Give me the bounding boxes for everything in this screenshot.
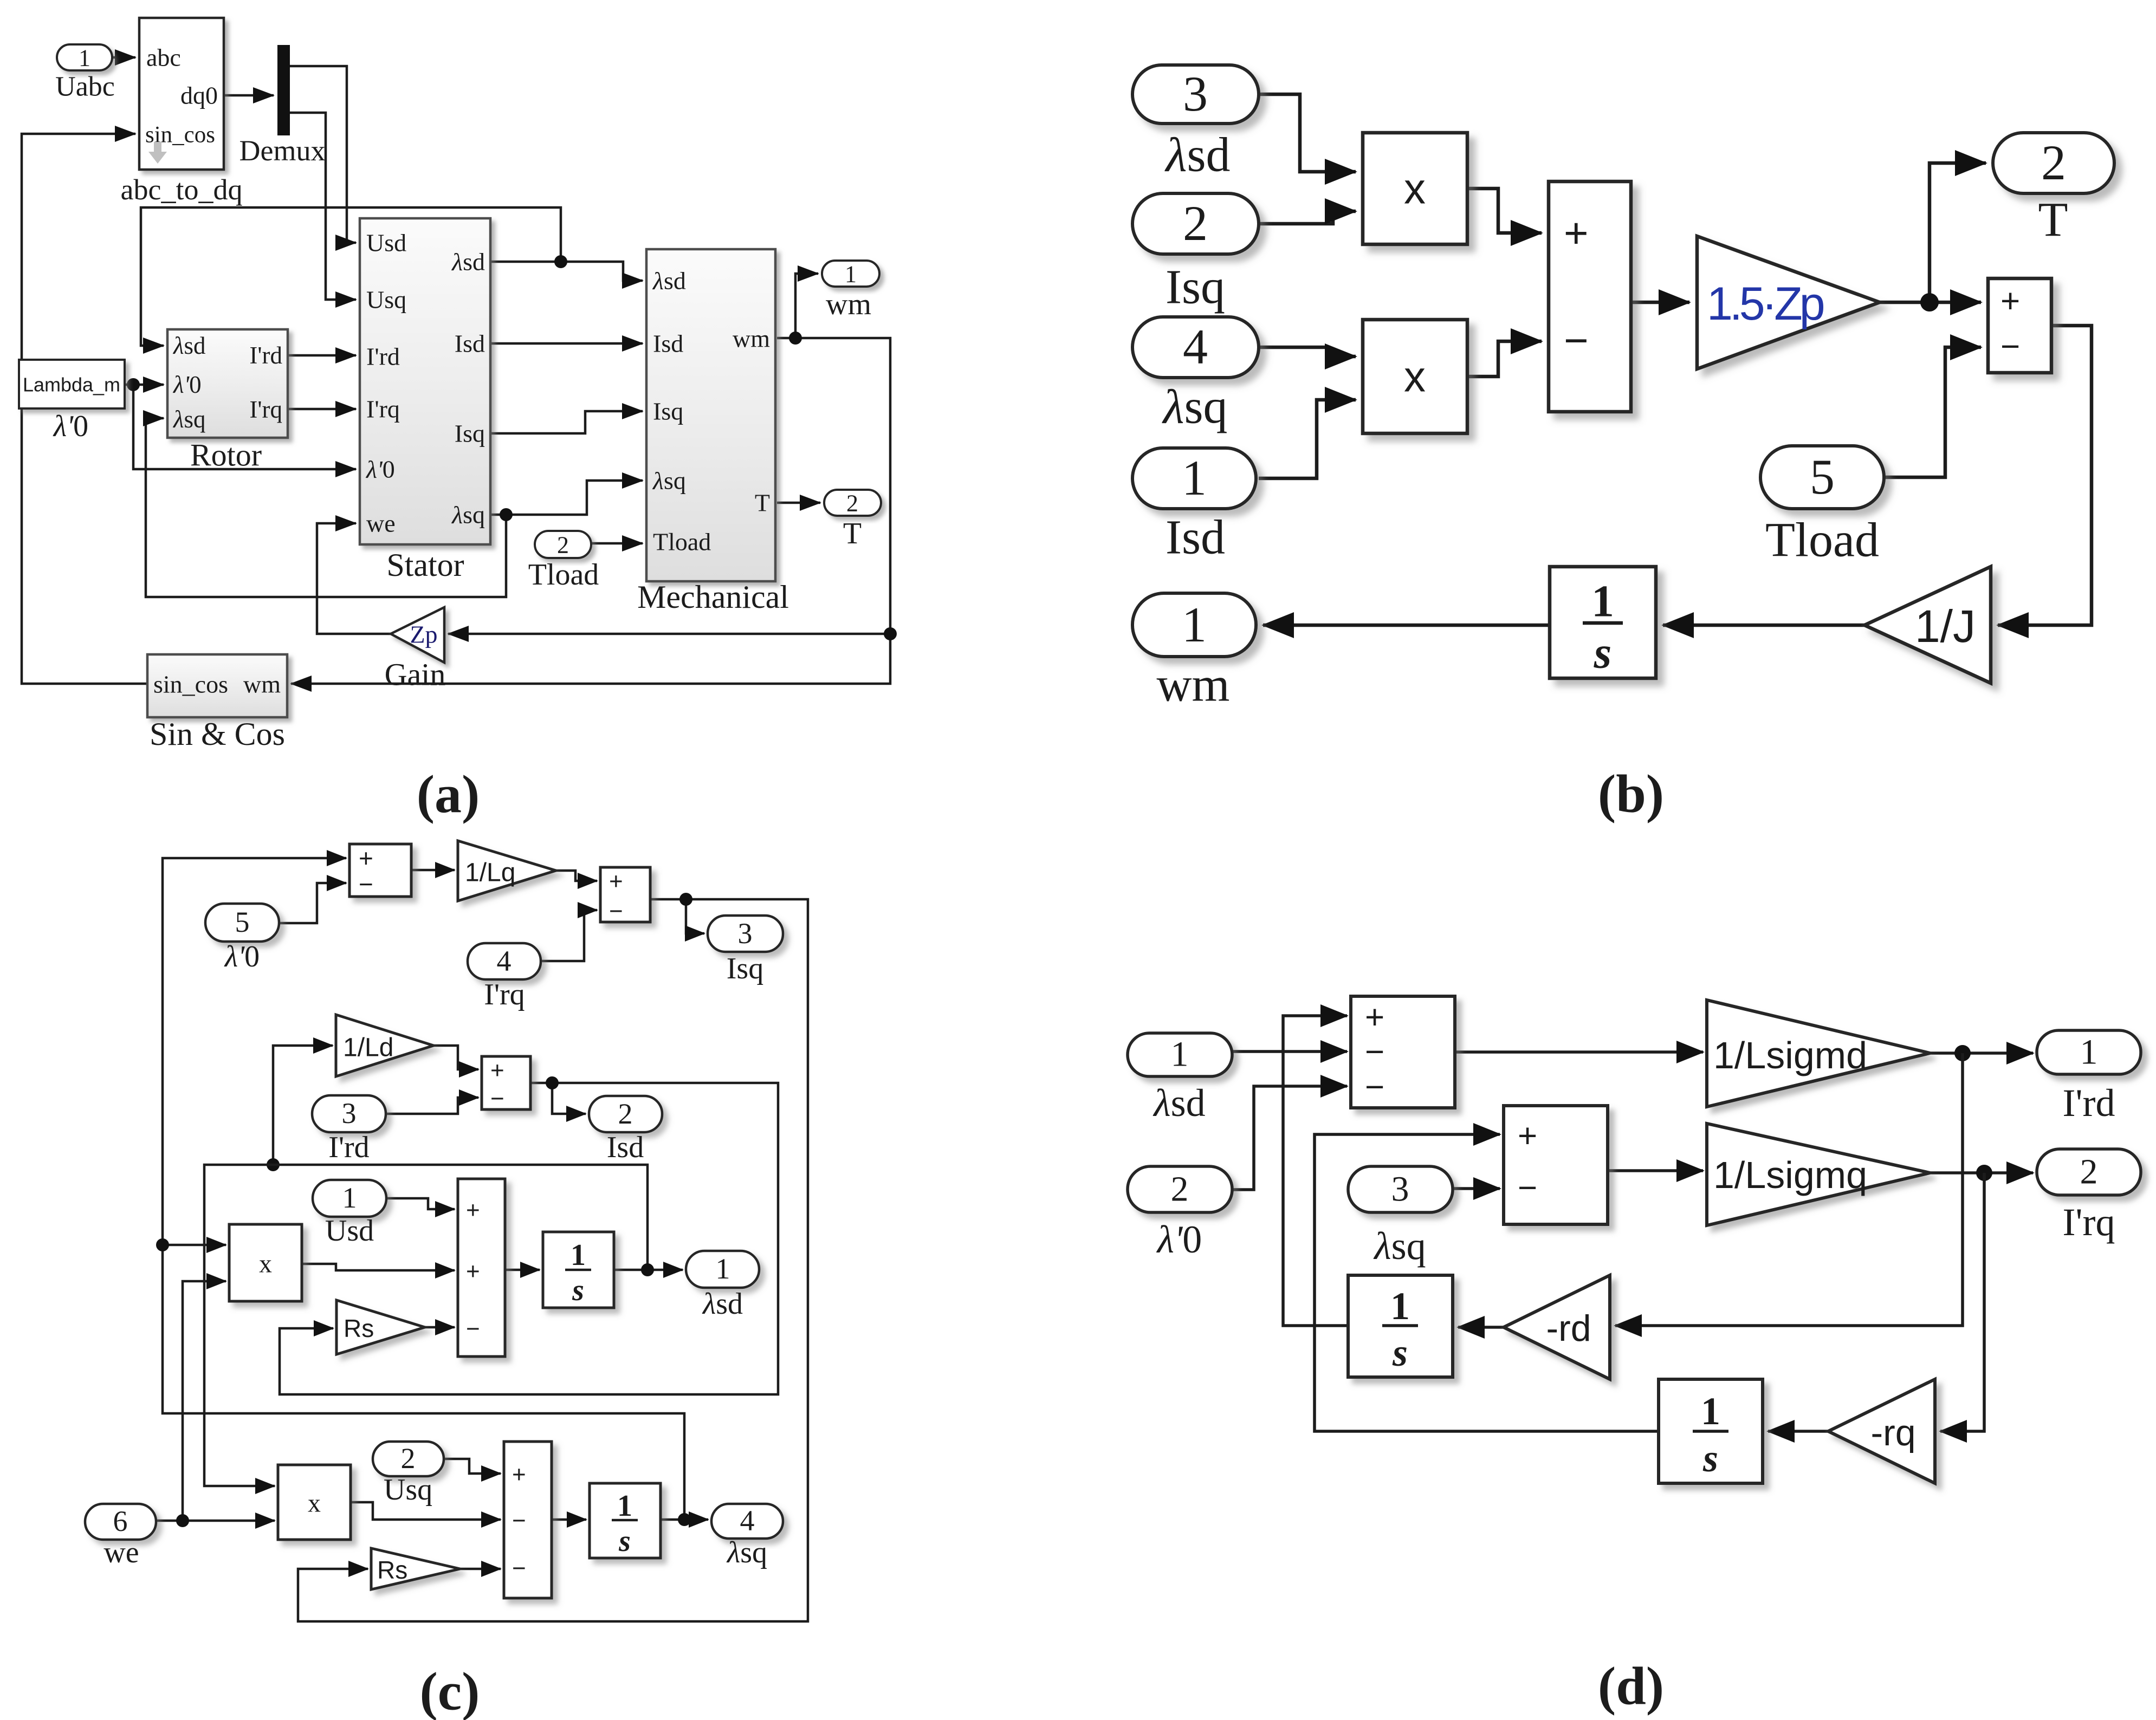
wire junction to sum2 plus bbox=[1930, 301, 1981, 304]
svg-text:λsq: λsq bbox=[1373, 1224, 1426, 1268]
svg-text:x: x bbox=[1404, 353, 1426, 401]
wire port 2 lambda'0 to sum1 bottom minus bbox=[1232, 1086, 1347, 1190]
wire port 4 to product2 in1 bbox=[1259, 347, 1356, 356]
wire I'rq feedback down to gain -rq bbox=[1940, 1173, 1984, 1431]
wire port 3 to product1 in1 bbox=[1259, 94, 1356, 172]
port 4 oval bbox=[1132, 317, 1259, 378]
svg-text:x: x bbox=[308, 1489, 321, 1518]
svg-text:(d): (d) bbox=[1598, 1656, 1664, 1716]
svg-text:λsq: λsq bbox=[1161, 380, 1227, 434]
sum block 1 bbox=[1549, 181, 1631, 412]
block Stator subsystem bbox=[360, 218, 490, 544]
svg-text:+: + bbox=[490, 1057, 504, 1084]
svg-text:1: 1 bbox=[571, 1238, 586, 1272]
wire Mechanical wm output bbox=[777, 337, 795, 340]
svg-text:dq0: dq0 bbox=[180, 82, 218, 109]
svg-text:wm: wm bbox=[1157, 658, 1230, 712]
wire to port lambda_sq bbox=[684, 1518, 708, 1521]
Demux bar bbox=[277, 45, 290, 135]
svg-text:λsd: λsd bbox=[702, 1287, 743, 1321]
svg-text:we: we bbox=[103, 1536, 139, 1569]
wire Rotor I'rq to Stator bbox=[288, 408, 356, 411]
svg-text:-rd: -rd bbox=[1546, 1308, 1591, 1349]
wire sum2 output bbox=[650, 898, 686, 901]
wire port 4 to sum2 minus bbox=[541, 910, 597, 961]
svg-text:λ'0: λ'0 bbox=[365, 456, 395, 483]
port 3 oval Isq out bbox=[708, 916, 783, 952]
gain -rq triangle bbox=[1828, 1379, 1935, 1483]
wire sin_cos feedback from Sin&Cos output to abc_to_dq sin_cos input bbox=[22, 134, 147, 684]
svg-text:(b): (b) bbox=[1598, 764, 1664, 824]
svg-text:Lambda_m: Lambda_m bbox=[23, 374, 120, 396]
wire integrator1 feedback to sum1 plus bbox=[1283, 1016, 1348, 1326]
svg-text:+: + bbox=[1365, 999, 1384, 1036]
svg-text:2: 2 bbox=[2080, 1152, 2098, 1192]
wire gain 1/J to integrator bbox=[1663, 624, 1864, 627]
port T oval 2 bbox=[824, 490, 881, 516]
wire port 1 to product2 in2 bbox=[1259, 400, 1356, 478]
svg-text:1: 1 bbox=[716, 1252, 730, 1285]
svg-text:λsq: λsq bbox=[451, 501, 485, 529]
integrator 1/s bottom bbox=[590, 1483, 661, 1558]
svg-text:2: 2 bbox=[557, 532, 569, 559]
svg-text:−: − bbox=[466, 1316, 480, 1342]
port wm oval 1 bbox=[822, 261, 879, 287]
svg-text:1: 1 bbox=[845, 261, 857, 288]
wire to port lambda_sd bbox=[648, 1269, 683, 1271]
port 3 oval bbox=[1132, 65, 1259, 124]
svg-text:λ'0: λ'0 bbox=[224, 940, 260, 973]
svg-text:1: 1 bbox=[1182, 597, 1207, 652]
svg-text:−: − bbox=[512, 1555, 526, 1582]
integrator 1/s top bbox=[543, 1232, 614, 1308]
gain 1/J triangle bbox=[1864, 567, 1991, 683]
svg-text:2: 2 bbox=[1183, 196, 1208, 251]
svg-text:1/Lsigmd: 1/Lsigmd bbox=[1713, 1034, 1867, 1076]
svg-text:1: 1 bbox=[617, 1489, 632, 1523]
wire port 2 to product1 in2 bbox=[1259, 211, 1356, 224]
gain 1/Lq triangle bbox=[458, 841, 556, 901]
svg-text:sin_cos: sin_cos bbox=[153, 671, 228, 698]
wire I'rd feedback down to gain -rd bbox=[1615, 1053, 1963, 1326]
wire gain -rq to integrator2 bbox=[1768, 1430, 1828, 1433]
gain Rs2 triangle bbox=[371, 1548, 460, 1589]
svg-text:wm: wm bbox=[733, 325, 770, 353]
port 2 oval Usq bbox=[373, 1442, 444, 1476]
svg-text:λ'0: λ'0 bbox=[53, 410, 88, 443]
svg-text:wm: wm bbox=[826, 288, 871, 321]
svg-text:s: s bbox=[1392, 1331, 1408, 1374]
svg-text:s: s bbox=[1702, 1437, 1718, 1480]
wire Lambda_m to Rotor lambda'0 bbox=[125, 384, 164, 386]
svg-text:−: − bbox=[1518, 1170, 1537, 1207]
svg-text:λsd: λsd bbox=[1164, 128, 1230, 182]
wire Demux out2 to Stator Usq bbox=[290, 113, 356, 300]
gain Rs1 triangle bbox=[336, 1300, 425, 1354]
svg-text:1: 1 bbox=[2080, 1033, 2098, 1072]
wire sum3 output bbox=[530, 1082, 552, 1085]
svg-text:1/Ld: 1/Ld bbox=[343, 1034, 393, 1062]
svg-text:Uabc: Uabc bbox=[55, 72, 115, 102]
node lambda'0 junction bbox=[127, 378, 140, 391]
wire gain -rd to integrator1 bbox=[1458, 1326, 1504, 1329]
svg-text:2: 2 bbox=[401, 1442, 416, 1475]
node 1/Ld branch junction bbox=[267, 1158, 280, 1171]
svg-text:+: + bbox=[466, 1197, 480, 1224]
wire sum1 to gain 1/Lq bbox=[411, 869, 455, 872]
svg-text:2: 2 bbox=[618, 1098, 633, 1130]
svg-text:Isd: Isd bbox=[653, 330, 683, 358]
wire gain 1/Ld to sum3 plus bbox=[433, 1046, 478, 1069]
svg-text:Mechanical: Mechanical bbox=[637, 579, 789, 615]
svg-text:1: 1 bbox=[1171, 1035, 1189, 1074]
svg-text:+: + bbox=[359, 844, 373, 872]
sum block 3 bbox=[482, 1056, 530, 1109]
svg-text:wm: wm bbox=[243, 671, 281, 698]
node wm junction bbox=[789, 332, 802, 345]
wire Rotor I'rd to Stator bbox=[288, 354, 356, 357]
product block 2 bbox=[278, 1465, 351, 1540]
svg-text:1: 1 bbox=[1182, 450, 1207, 505]
svg-text:I'rq: I'rq bbox=[2063, 1200, 2115, 1244]
wire integrator to port wm bbox=[1263, 624, 1550, 627]
svg-text:Isq: Isq bbox=[455, 420, 485, 447]
svg-text:T: T bbox=[755, 489, 770, 517]
svg-text:+: + bbox=[466, 1258, 480, 1285]
svg-text:3: 3 bbox=[342, 1097, 357, 1130]
wire sum4 to integrator1 bbox=[505, 1269, 540, 1271]
block abc_to_dq bbox=[139, 18, 224, 170]
svg-text:Stator: Stator bbox=[386, 547, 464, 583]
wire wm feedback to Sin&Cos bbox=[291, 338, 890, 684]
node lambda_sd junction bbox=[554, 255, 567, 268]
wire lambda_sd riser to gain 1/Ld bbox=[273, 1046, 333, 1165]
node we junction bbox=[176, 1514, 189, 1527]
svg-text:I'rd: I'rd bbox=[2063, 1081, 2115, 1125]
gain 1.5*Zp triangle bbox=[1697, 236, 1880, 369]
wire lambda_sd feedback loop to product1 in1 path bbox=[204, 1165, 648, 1486]
wire port 1 lambda_sd to sum1 middle minus bbox=[1232, 1050, 1347, 1053]
wire port 3 lambda_sq to sum2 minus bbox=[1453, 1187, 1500, 1190]
wire wm to Gain input bbox=[448, 633, 890, 635]
svg-text:2: 2 bbox=[846, 490, 858, 517]
node lambda_sq output junction bbox=[678, 1513, 691, 1526]
wire Stator lambda_sq output stub bbox=[490, 514, 506, 516]
svg-text:I'rd: I'rd bbox=[366, 343, 400, 371]
wire sum5 to integrator2 bbox=[552, 1518, 586, 1521]
svg-text:λsq: λsq bbox=[652, 467, 686, 495]
wire port 2 Usq to sum5 plus bbox=[444, 1459, 501, 1474]
wire integrator2 feedback to sum2 plus bbox=[1315, 1134, 1659, 1431]
wire lambda_sq feedback to Rotor bbox=[146, 418, 506, 597]
port 2 oval Isd out bbox=[589, 1096, 662, 1132]
wire Tload port to Mechanical bbox=[591, 542, 643, 545]
product block 1 bbox=[1363, 133, 1467, 244]
svg-text:s: s bbox=[618, 1524, 631, 1558]
svg-text:1/J: 1/J bbox=[1915, 601, 1976, 652]
svg-text:3: 3 bbox=[738, 917, 753, 950]
svg-text:abc: abc bbox=[146, 44, 181, 72]
wire Stator Isd to Mechanical bbox=[490, 342, 643, 345]
svg-text:abc_to_dq: abc_to_dq bbox=[121, 173, 243, 206]
svg-text:Demux: Demux bbox=[239, 134, 326, 167]
wire junction to port T bbox=[1930, 163, 1986, 302]
wire gain Rs1 to sum4 minus bbox=[425, 1326, 455, 1329]
svg-text:Usq: Usq bbox=[366, 286, 406, 314]
port 4 oval lambda_sq out bbox=[711, 1504, 783, 1539]
block Lambda_m constant bbox=[19, 360, 125, 408]
node I'rq junction bbox=[1976, 1165, 1992, 1181]
svg-text:I'rd: I'rd bbox=[249, 342, 282, 369]
wire port 5 to sum1 minus bbox=[279, 883, 346, 923]
sum block 2 bbox=[1988, 278, 2051, 373]
svg-text:4: 4 bbox=[1183, 319, 1208, 374]
svg-text:Rs: Rs bbox=[377, 1556, 407, 1584]
wire Isd feedback loop to gain Rs1 bbox=[280, 1083, 778, 1394]
product block 2 bbox=[1363, 320, 1467, 433]
svg-text:Rotor: Rotor bbox=[190, 438, 262, 473]
wire gain 1/Lq to sum2 plus bbox=[556, 871, 597, 881]
wire product2 to sum minus bbox=[1467, 341, 1542, 377]
wire lambda_sq branch to product1 in1 bbox=[163, 1244, 226, 1247]
svg-text:s: s bbox=[572, 1274, 584, 1307]
sum block 4 tall bbox=[458, 1179, 505, 1356]
wire sum to gain 1.5Zp bbox=[1631, 301, 1689, 304]
port 6 oval we bbox=[85, 1504, 156, 1540]
svg-text:−: − bbox=[512, 1508, 526, 1534]
svg-text:1: 1 bbox=[1591, 576, 1614, 627]
wire product1 to sum plus bbox=[1467, 189, 1542, 233]
svg-text:−: − bbox=[1564, 316, 1589, 364]
svg-text:+: + bbox=[609, 868, 623, 895]
svg-text:Isq: Isq bbox=[653, 398, 683, 425]
svg-text:-rq: -rq bbox=[1870, 1412, 1915, 1453]
sum block 5 tall bbox=[504, 1442, 552, 1598]
port 3 oval I'rd in bbox=[312, 1095, 386, 1132]
svg-text:3: 3 bbox=[1391, 1170, 1409, 1209]
wire Mechanical T to port 2 bbox=[777, 502, 820, 504]
port 2 oval bbox=[1132, 193, 1259, 254]
svg-text:4: 4 bbox=[497, 945, 512, 977]
svg-text:1/Lq: 1/Lq bbox=[465, 859, 515, 887]
svg-text:λsd: λsd bbox=[172, 332, 206, 359]
svg-text:+: + bbox=[1518, 1118, 1537, 1155]
gain Zp triangle bbox=[391, 607, 444, 663]
svg-text:4: 4 bbox=[740, 1504, 755, 1537]
svg-text:5: 5 bbox=[1810, 449, 1835, 504]
wire lambda_sd feedback to Rotor bbox=[141, 207, 561, 346]
svg-text:Gain: Gain bbox=[385, 657, 446, 692]
port 2 oval I'rq out bbox=[2037, 1149, 2141, 1195]
wire sum1 to gain 1/Lsigmd bbox=[1455, 1050, 1703, 1054]
svg-text:Isd: Isd bbox=[607, 1131, 644, 1164]
svg-text:−: − bbox=[2000, 328, 2020, 366]
port 4 oval I'rq bbox=[468, 943, 541, 979]
wire to port Isd bbox=[552, 1083, 586, 1114]
svg-text:T: T bbox=[843, 517, 862, 550]
wire gain 1/Lsigmd to port I'rd bbox=[1930, 1052, 2033, 1055]
svg-text:λsd: λsd bbox=[451, 248, 485, 276]
svg-text:λsq: λsq bbox=[172, 406, 206, 433]
integrator 1/s first bbox=[1348, 1275, 1453, 1377]
wire dq0 to Demux bbox=[224, 94, 274, 97]
svg-text:1: 1 bbox=[1701, 1390, 1720, 1433]
wire integrator2 output bbox=[661, 1518, 684, 1521]
port wm oval 1 bbox=[1132, 593, 1256, 657]
gain -rd triangle bbox=[1504, 1275, 1610, 1379]
svg-text:Tload: Tload bbox=[528, 558, 599, 592]
svg-text:−: − bbox=[490, 1086, 504, 1112]
wire lambda_sq feedback loop to sum1 plus bbox=[163, 858, 684, 1520]
gain 1/Lsigmd triangle bbox=[1707, 1000, 1930, 1107]
port 1 oval lambda_sd bbox=[1128, 1033, 1232, 1076]
svg-text:s: s bbox=[1594, 628, 1612, 678]
sum block 1 three inputs bbox=[1351, 996, 1455, 1108]
integrator 1/s second bbox=[1659, 1379, 1763, 1483]
svg-text:Usd: Usd bbox=[325, 1214, 374, 1248]
port T oval 2 bbox=[1993, 133, 2114, 193]
port 2 oval lambda'0 bbox=[1128, 1166, 1232, 1212]
sum block 1 top bbox=[349, 844, 411, 897]
svg-text:+: + bbox=[512, 1462, 526, 1488]
port Uabc oval 1 bbox=[57, 44, 112, 70]
wire product1 to sum4 second plus bbox=[302, 1264, 455, 1270]
sum block 2 bbox=[600, 867, 650, 922]
node torque junction bbox=[1920, 293, 1939, 311]
svg-text:we: we bbox=[366, 510, 396, 537]
svg-text:Rs: Rs bbox=[344, 1314, 374, 1342]
wire Isq outer feedback loop to gain Rs2 bbox=[298, 899, 808, 1621]
svg-text:Isq: Isq bbox=[727, 952, 763, 985]
node Isq junction bbox=[679, 893, 692, 906]
wire lambda_sq to Mechanical bbox=[506, 481, 643, 515]
wire gain Rs2 to sum5 second minus bbox=[460, 1568, 501, 1570]
svg-text:−: − bbox=[1365, 1069, 1384, 1106]
node I'rd junction bbox=[1954, 1045, 1971, 1061]
svg-text:I'rq: I'rq bbox=[366, 395, 400, 423]
svg-text:−: − bbox=[609, 898, 623, 925]
wire Gain output to Stator we bbox=[317, 523, 391, 634]
wire gain output to junction bbox=[1880, 301, 1930, 304]
svg-text:Usd: Usd bbox=[366, 229, 406, 257]
node lambda_sd output junction bbox=[641, 1263, 654, 1276]
svg-text:λsd: λsd bbox=[652, 267, 686, 295]
wire port 3 I'rd to sum3 minus bbox=[386, 1098, 478, 1114]
svg-text:Isd: Isd bbox=[1166, 511, 1225, 564]
wire Demux out1 to Stator Usd bbox=[290, 66, 356, 243]
port 1 oval Usd bbox=[313, 1180, 386, 1217]
svg-text:−: − bbox=[1365, 1034, 1384, 1071]
svg-text:+: + bbox=[2000, 283, 2020, 320]
svg-text:(c): (c) bbox=[420, 1661, 480, 1720]
svg-text:Isd: Isd bbox=[455, 330, 485, 358]
sum block 2 bbox=[1504, 1106, 1608, 1224]
wire port 6 we to product2 in2 bbox=[156, 1520, 275, 1522]
svg-text:2: 2 bbox=[2041, 135, 2066, 190]
svg-text:Tload: Tload bbox=[1765, 514, 1879, 567]
wire lambda'0 branch to Stator bbox=[133, 385, 356, 469]
node Gain branch junction bbox=[884, 627, 897, 640]
svg-text:Usq: Usq bbox=[384, 1473, 432, 1507]
wire we riser to product1 in2 bbox=[183, 1281, 226, 1521]
svg-text:λ'0: λ'0 bbox=[1156, 1218, 1202, 1261]
wire Tload port 5 to sum2 minus bbox=[1884, 347, 1981, 477]
svg-text:λsq: λsq bbox=[726, 1536, 767, 1569]
svg-text:λ'0: λ'0 bbox=[172, 371, 202, 398]
wire product2 to sum5 first minus bbox=[351, 1502, 501, 1520]
svg-text:Tload: Tload bbox=[653, 528, 711, 556]
svg-text:−: − bbox=[359, 870, 373, 898]
svg-text:λsd: λsd bbox=[1153, 1081, 1205, 1125]
svg-text:1: 1 bbox=[79, 45, 90, 72]
product block 1 bbox=[229, 1224, 302, 1301]
svg-text:3: 3 bbox=[1183, 66, 1208, 121]
svg-text:1: 1 bbox=[1390, 1284, 1410, 1328]
svg-text:I'rq: I'rq bbox=[484, 978, 525, 1011]
port Tload oval 5 bbox=[1760, 446, 1884, 509]
svg-text:Zp: Zp bbox=[410, 621, 437, 648]
node Isd junction bbox=[546, 1076, 559, 1089]
svg-text:Sin & Cos: Sin & Cos bbox=[150, 716, 285, 752]
wire Uabc to abc input bbox=[112, 56, 135, 59]
wire integrator1 output bbox=[614, 1269, 648, 1271]
port 1 oval bbox=[1132, 448, 1256, 509]
svg-text:5: 5 bbox=[235, 906, 250, 938]
port 1 oval I'rd out bbox=[2037, 1030, 2141, 1074]
svg-text:6: 6 bbox=[113, 1505, 128, 1537]
wire sum2 output to gain 1/J bbox=[1998, 326, 2092, 625]
svg-text:T: T bbox=[2038, 193, 2068, 247]
node lambda_sq junction bbox=[500, 508, 513, 521]
svg-text:1.5·Zp: 1.5·Zp bbox=[1707, 278, 1824, 330]
wire Stator lambda_sd output bbox=[490, 261, 561, 263]
gain 1/Ld triangle bbox=[336, 1015, 433, 1076]
svg-text:I'rd: I'rd bbox=[328, 1131, 369, 1164]
block Sin & Cos bbox=[147, 654, 287, 717]
svg-text:1: 1 bbox=[342, 1182, 357, 1214]
block Rotor subsystem bbox=[167, 329, 288, 438]
node lambda_sq branch junction bbox=[156, 1238, 169, 1251]
wire sum2 to gain 1/Lsigmq bbox=[1608, 1169, 1703, 1172]
wire lambda_sd to Mechanical bbox=[561, 262, 643, 281]
gain 1/Lsigmq triangle bbox=[1707, 1124, 1930, 1225]
wire gain 1/Lsigmq to port I'rq bbox=[1930, 1171, 2033, 1174]
port Tload oval 2 bbox=[535, 531, 591, 558]
svg-text:x: x bbox=[1404, 165, 1426, 213]
wire Stator Isq to Mechanical bbox=[490, 411, 643, 433]
wire port 1 Usd to sum4 first plus bbox=[386, 1198, 455, 1209]
svg-text:x: x bbox=[259, 1250, 272, 1278]
port 5 oval bbox=[205, 904, 279, 942]
svg-text:1/Lsigmq: 1/Lsigmq bbox=[1713, 1154, 1867, 1196]
port 3 oval lambda_sq bbox=[1348, 1166, 1453, 1212]
integrator 1/s bbox=[1550, 567, 1656, 678]
svg-text:2: 2 bbox=[1171, 1170, 1189, 1209]
svg-text:+: + bbox=[1564, 209, 1589, 257]
svg-text:(a): (a) bbox=[417, 764, 480, 825]
svg-text:Isq: Isq bbox=[1166, 261, 1225, 314]
wire to port Isq bbox=[686, 899, 704, 933]
svg-text:I'rq: I'rq bbox=[249, 396, 282, 423]
wire wm to port 1 bbox=[795, 274, 818, 338]
block Mechanical subsystem bbox=[646, 249, 775, 581]
port 1 oval lambda_sd out bbox=[686, 1251, 759, 1288]
